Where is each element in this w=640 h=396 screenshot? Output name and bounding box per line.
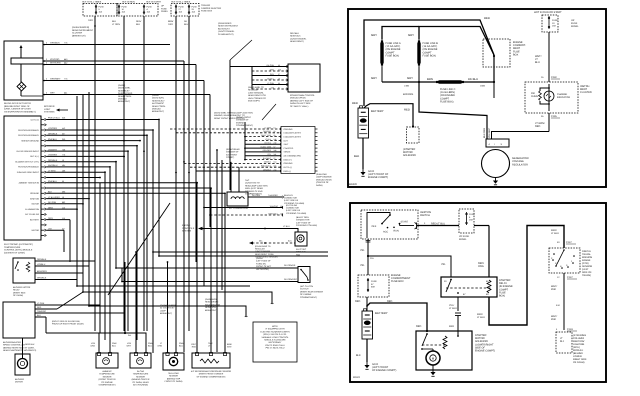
battery B1 (starting): [362, 311, 373, 339]
blower motor box: [15, 354, 30, 375]
junction S244: [124, 332, 126, 334]
junction: [88, 198, 90, 200]
svg-text:BLK/ORG: BLK/ORG: [483, 128, 486, 138]
svg-text:OFF: OFF: [372, 225, 377, 228]
wire RED/LT BLU switch to fuse: [418, 225, 459, 227]
svg-text:COOLING: COOLING: [296, 251, 306, 254]
svg-text:A/C CLU85 SW: A/C CLU85 SW: [25, 213, 39, 216]
wire compressor out: [248, 196, 282, 198]
svg-text:NEAR BLKLY: NEAR BLKLY: [152, 99, 165, 102]
wire bus x204: [203, 81, 205, 287]
svg-text:FUSE BOX): FUSE BOX): [440, 100, 454, 103]
wire controller row LT GRN: [35, 304, 100, 306]
svg-text:DK BLU: DK BLU: [267, 77, 274, 80]
blend door actuator box: [4, 41, 43, 100]
svg-text:FUSE: FUSE: [192, 6, 198, 9]
svg-text:341: 341: [274, 153, 277, 156]
wire fuse box to bus: [493, 56, 495, 82]
svg-text:BLK: BLK: [37, 314, 41, 317]
svg-text:COOLANT/LIGHTS: COOLANT/LIGHTS: [284, 132, 302, 135]
wire PCM VIO: [252, 88, 288, 90]
svg-text:IN-CAR: IN-CAR: [137, 370, 145, 373]
svg-text:A/C DEMAND (PB): A/C DEMAND (PB): [284, 155, 301, 158]
svg-text:BREAKOUT): BREAKOUT): [205, 309, 217, 312]
generator regulator terminal box: [486, 139, 509, 147]
svg-text:33: 33: [278, 82, 280, 85]
junction: [216, 149, 218, 151]
wire bus x176: [175, 16, 177, 353]
svg-text:FUSE BOX): FUSE BOX): [423, 54, 437, 57]
svg-text:TEMPERATURE: TEMPERATURE: [99, 373, 115, 376]
svg-text:BLU: BLU: [112, 344, 116, 347]
wire BLK battery ground: [362, 138, 364, 169]
svg-text:VIO/ORG: VIO/ORG: [50, 58, 60, 61]
svg-text:LT BLU: LT BLU: [283, 225, 290, 228]
svg-text:205: 205: [280, 213, 283, 216]
svg-text:249: 249: [274, 142, 277, 145]
svg-text:GRY/BLK: GRY/BLK: [290, 32, 300, 35]
starter motor solenoid (dashed): [407, 127, 420, 143]
svg-text:BLOWER: BLOWER: [15, 378, 25, 381]
svg-text:VIO: VIO: [271, 86, 275, 89]
svg-text:MODULE (SCM): MODULE (SCM): [316, 178, 332, 181]
wire stack2 row 1: [210, 214, 283, 216]
wire EATC row 8: [47, 161, 117, 163]
svg-text:MODULE (PCM): MODULE (PCM): [290, 97, 306, 100]
svg-text:LT GRN: LT GRN: [267, 82, 274, 85]
svg-text:OF DASH): OF DASH): [573, 361, 585, 364]
svg-text:GROUND: GROUND: [284, 128, 293, 131]
wire RED battery feed to engine compt fuse box: [364, 20, 494, 106]
wire RED/LT BLU relay to DTR sensor: [489, 226, 564, 326]
wire stack1 row 6: [245, 151, 281, 153]
svg-text:YEL/WHT: YEL/WHT: [488, 127, 491, 138]
svg-text:OF ENGINE COMPT): OF ENGINE COMPT): [372, 369, 396, 372]
svg-text:PIN 23: PNK/LT BLU: PIN 23: PNK/LT BLU: [265, 344, 285, 347]
wire relay row ORG/BLK: [35, 279, 77, 281]
svg-text:HEADLAMP JUNCTION: HEADLAMP JUNCTION: [245, 184, 268, 187]
svg-text:15A: 15A: [552, 25, 556, 28]
svg-text:TRANS): TRANS): [582, 274, 591, 277]
wire bus x89: [88, 92, 90, 306]
junction: [183, 161, 185, 163]
svg-text:RED: RED: [404, 108, 410, 112]
wire DK GRN/ORG to a/c cutout 2: [122, 281, 298, 283]
dash fuse panel box 2: [117, 4, 158, 17]
svg-text:(E4OD 4W8L: (E4OD 4W8L: [118, 87, 131, 90]
svg-text:TAN/LT GRN: TAN/LT GRN: [261, 134, 272, 137]
wire DK GRN to a/c cutout: [116, 267, 298, 269]
wire bus x153: [152, 130, 154, 353]
svg-text:LAMP DIMMING: LAMP DIMMING: [316, 176, 332, 179]
svg-text:VARIABLE LOAD CONTROL: VARIABLE LOAD CONTROL: [262, 336, 290, 339]
wire EATC row 3: [47, 134, 148, 136]
wire stack1 row 1: [176, 132, 281, 134]
svg-text:PNK/LT BLU: PNK/LT BLU: [261, 165, 272, 168]
wire fuse57 to battery: [366, 297, 368, 311]
svg-text:BLK: BLK: [354, 154, 359, 158]
svg-text:ORG: ORG: [88, 19, 93, 22]
svg-text:AT COURTESY: AT COURTESY: [160, 307, 175, 310]
svg-text:(PRL) LYNX ON 3.4 LTR.: (PRL) LYNX ON 3.4 LTR.: [263, 333, 287, 336]
svg-text:YEL: YEL: [441, 263, 446, 266]
svg-text:SPEED CONTROLLER: SPEED CONTROLLER: [3, 344, 25, 347]
fuse link C: [434, 81, 466, 83]
charge indicator lamp: [544, 91, 554, 101]
svg-text:OF DASH, NEAR: OF DASH, NEAR: [132, 381, 149, 384]
svg-text:NEGATION: NEGATION: [205, 306, 216, 309]
wire sensor pin x110: [109, 346, 111, 353]
starter relay coil: [487, 280, 491, 293]
svg-text:FUSE BOX: FUSE BOX: [201, 10, 213, 13]
svg-text:ENGINE COMPT): ENGINE COMPT): [475, 350, 495, 353]
svg-text:BLKW-BLKY: BLKW-BLKY: [218, 27, 230, 30]
svg-text:FIRST BLU: FIRST BLU: [268, 213, 278, 216]
svg-text:JUNCTION/W/RL: JUNCTION/W/RL: [255, 250, 272, 253]
svg-text:29: 29: [278, 77, 280, 80]
svg-text:(BEHIND RIGHT SIDE OF DASH,: (BEHIND RIGHT SIDE OF DASH,: [3, 346, 35, 349]
wire relay row VIO/BLU: [35, 265, 89, 267]
svg-text:915: 915: [274, 165, 277, 168]
wire EATC row14: [47, 192, 226, 194]
svg-text:ENG CMPT): ENG CMPT): [248, 100, 260, 103]
svg-text:RED/: RED/: [136, 20, 142, 23]
svg-text:DK BLU: DK BLU: [468, 77, 478, 81]
EATC module box: [4, 116, 41, 240]
wire pressure feeder x197: [196, 183, 198, 346]
svg-text:NOTE:: NOTE:: [272, 325, 279, 328]
fuse 4: [175, 5, 177, 15]
svg-text:559: 559: [278, 68, 281, 71]
svg-text:(RIGHT-FRONT: (RIGHT-FRONT: [236, 116, 252, 119]
wire EATC row 12: [47, 182, 198, 184]
DTR sensor contacts: [553, 253, 555, 255]
svg-text:T-WD/ORG: T-WD/ORG: [268, 194, 278, 197]
svg-text:(DASH/JUMPER: (DASH/JUMPER: [160, 304, 176, 307]
svg-text:MODULE: MODULE: [118, 98, 128, 101]
svg-text:LT BLU: LT BLU: [477, 316, 485, 319]
wire EATC row 2: [47, 129, 154, 131]
charging system panel border: [348, 9, 606, 187]
wire start contact: [399, 224, 401, 226]
svg-text:SWITCH: SWITCH: [420, 214, 430, 217]
svg-text:AUTOMATIC: AUTOMATIC: [152, 102, 165, 105]
svg-text:TAN/ORG: TAN/ORG: [37, 310, 46, 313]
svg-text:ATC HOUSING): ATC HOUSING): [133, 384, 148, 387]
svg-text:THC: THC: [245, 179, 250, 182]
wire EATC row16: [47, 203, 84, 205]
svg-text:RL1: RL1: [560, 340, 565, 343]
svg-text:RED: RED: [37, 306, 42, 309]
svg-text:LAMP: LAMP: [160, 309, 166, 312]
wire BLK down: [45, 317, 47, 333]
svg-text:OF SAFETY WALL): OF SAFETY WALL): [290, 105, 309, 108]
cooling fan motor: [297, 235, 304, 242]
dash fuse panel box 1: [83, 4, 117, 17]
ignition switch L pin connector: [366, 241, 371, 243]
svg-text:FUSE) (RL: FUSE) (RL: [256, 262, 267, 265]
svg-text:RED: RED: [449, 325, 454, 328]
svg-text:(RIGHT SIDE: (RIGHT SIDE: [13, 291, 26, 294]
svg-text:PPL: PPL: [268, 153, 271, 156]
svg-text:(LEFT SIDE OF: (LEFT SIDE OF: [284, 199, 299, 202]
wire stub DK BLU: [493, 82, 495, 98]
svg-text:REGULAR: REGULAR: [248, 89, 259, 92]
svg-text:CAMPER ADAPTER: CAMPER ADAPTER: [201, 7, 222, 10]
wire bus x189: [188, 16, 190, 331]
ambient temperature sensor box: [96, 353, 118, 368]
svg-text:(RIGHT REAR CORNER: (RIGHT REAR CORNER: [300, 290, 324, 293]
svg-text:UNIV CORNER OF: UNIV CORNER OF: [248, 97, 267, 100]
junction S bus: [418, 81, 420, 83]
svg-text:149B: 149B: [404, 85, 410, 88]
svg-text:POSITION FEEDBACK: POSITION FEEDBACK: [18, 134, 40, 137]
wire stack1 row 2: [245, 136, 281, 138]
svg-text:REAR CORSL: REAR CORSL: [118, 95, 132, 98]
starter motor solenoid box: [416, 331, 472, 370]
engine compartment fuse box (dashed, start): [358, 275, 389, 297]
junction: [94, 156, 96, 158]
svg-text:(LEFT SIDE OF: (LEFT SIDE OF: [256, 260, 271, 263]
fuse 10 15A: [548, 16, 550, 29]
wire GRY fuse link A top bus: [382, 27, 419, 40]
svg-text:MODULE (VLCM) ARE: MODULE (VLCM) ARE: [264, 339, 286, 342]
svg-text:57: 57: [274, 145, 276, 148]
junction: [143, 135, 145, 137]
wire controller row TAN/ORG: [35, 312, 124, 314]
wire bus x184: [183, 61, 185, 352]
svg-text:NEAR RIGHT): NEAR RIGHT): [290, 40, 304, 43]
svg-text:HOT IN RUN OR START: HOT IN RUN OR START: [534, 11, 562, 14]
a/c clutch cutout box: [298, 267, 310, 283]
svg-text:ORG: ORG: [90, 344, 95, 347]
starter relay contacts: [450, 279, 452, 281]
fuse link A: [381, 39, 383, 67]
svg-text:LEFT/DOOR): LEFT/DOOR): [256, 268, 269, 271]
wire stack1 row 11: [196, 170, 281, 172]
svg-text:DK GRN: DK GRN: [252, 194, 260, 197]
svg-text:(BREAKOUT): (BREAKOUT): [72, 34, 86, 37]
junction: [123, 140, 125, 142]
svg-text:LT GRN: LT GRN: [112, 23, 120, 26]
wire controller row BLK: [35, 316, 46, 318]
svg-text:DASH, CENTER OF DASH: DASH, CENTER OF DASH: [4, 108, 31, 111]
fuse link B: [418, 39, 420, 67]
wire PCM DK BLU: [252, 79, 288, 81]
junction fan 1: [244, 136, 246, 138]
wire bus x222: [221, 160, 223, 290]
svg-text:RELAY: RELAY: [13, 289, 20, 292]
electric cooling fan box: [295, 232, 307, 246]
DTR selector arm: [556, 250, 564, 266]
leader diagonal 4: [262, 104, 276, 120]
svg-text:(DASH/JUMPER): (DASH/JUMPER): [72, 26, 89, 29]
svg-text:GRY: GRY: [50, 92, 55, 95]
svg-text:BLOWER MTR RLY CTRL: BLOWER MTR RLY CTRL: [15, 161, 39, 164]
svg-text:2: 2: [46, 78, 47, 81]
wire bridge riser x125: [124, 262, 126, 333]
svg-text:BLK/WHT: BLK/WHT: [263, 157, 272, 160]
svg-text:59: 59: [274, 130, 276, 133]
fuse 5: [188, 5, 190, 15]
svg-text:TAN/BLK: TAN/BLK: [264, 161, 272, 164]
svg-text:OF ENGINE: OF ENGINE: [300, 293, 312, 296]
ground generator case: [495, 178, 497, 181]
wire PCM feeder: [251, 67, 253, 90]
svg-text:2: 2: [46, 92, 47, 95]
svg-text:(LEFT SIDE OF: (LEFT SIDE OF: [296, 221, 311, 224]
svg-text:FUSE: FUSE: [99, 6, 105, 9]
svg-text:RED: RED: [355, 300, 360, 303]
svg-text:ORG/BLK: ORG/BLK: [263, 168, 272, 171]
svg-text:(BEHIND CENTER: (BEHIND CENTER: [132, 378, 150, 381]
wire EATC row15: [47, 198, 90, 200]
svg-text:CUTOUT: CUTOUT: [300, 288, 309, 291]
svg-text:DK: DK: [184, 20, 188, 23]
svg-text:(BEHIND RIGHT SIDE OF: (BEHIND RIGHT SIDE OF: [4, 105, 30, 108]
wire relay row BRN/ORG: [35, 272, 83, 274]
wire stack1 row 10: [190, 166, 281, 168]
svg-text:348: 348: [274, 149, 277, 152]
svg-text:ORG/WHT: ORG/WHT: [50, 78, 61, 81]
starting system panel border: [350, 203, 606, 382]
wire VIO/ORG blend door row: [43, 60, 184, 62]
svg-text:ENGINE: ENGINE: [236, 121, 245, 124]
svg-text:DK BLU: DK BLU: [265, 142, 272, 145]
wire PCM ORG: [252, 70, 288, 72]
wire fuse to relay vertical: [474, 225, 489, 227]
junction: [143, 150, 145, 152]
svg-text:BREAKOUT): BREAKOUT): [118, 100, 130, 103]
svg-text:(E4OD 4W8L TO: (E4OD 4W8L TO: [248, 86, 264, 89]
ground G100 (starting): [366, 362, 368, 365]
svg-text:BLEND DOOR ACTUATOR: BLEND DOOR ACTUATOR: [4, 102, 31, 105]
starter motor M: [426, 351, 440, 365]
svg-text:START: START: [401, 221, 409, 224]
svg-text:RED: RED: [416, 325, 421, 328]
fuse 5 15A: [466, 212, 468, 225]
wire ORG/WHT blend door row: [43, 80, 204, 82]
svg-text:C137: C137: [566, 241, 572, 244]
wire bus x137: [136, 146, 138, 340]
svg-text:SYSTEMS: SYSTEMS: [44, 111, 55, 114]
junction connector stack box: [281, 127, 315, 174]
wire bus x100: [99, 183, 101, 333]
wire GRY fuse link B to fuse box: [419, 27, 494, 56]
wire bus x167.5: [167, 262, 169, 353]
wire compressor feeder 2: [238, 167, 240, 192]
svg-text:244: 244: [128, 334, 131, 337]
wire to compressor region: [159, 255, 328, 257]
steering column ignition lighting module (dashed): [556, 332, 572, 353]
wire BLK battery ground 2: [366, 339, 368, 362]
svg-text:LT BLU: LT BLU: [449, 307, 457, 310]
svg-text:(JUNCTION/A/RL: (JUNCTION/A/RL: [218, 30, 235, 33]
svg-text:CLUSTER: CLUSTER: [72, 32, 83, 35]
wire EATC row 9: [47, 166, 111, 168]
svg-text:PNK: PNK: [551, 318, 556, 321]
svg-text:COOLANT/LIGHTS: COOLANT/LIGHTS: [284, 135, 302, 138]
svg-text:A/C REFRIGERANT PRESSURE SENSO: A/C REFRIGERANT PRESSURE SENSOR: [191, 370, 232, 373]
svg-text:FUSE: FUSE: [371, 280, 377, 283]
svg-text:(CENTER OF: (CENTER OF: [316, 181, 329, 184]
svg-text:SOLENOID: SOLENOID: [403, 154, 416, 157]
svg-text:FUSE BOX: FUSE BOX: [391, 280, 404, 283]
a/c compressor box: [227, 192, 248, 206]
svg-text:SUN LOAD: SUN LOAD: [168, 372, 179, 375]
svg-text:UP: UP: [161, 5, 165, 8]
svg-text:REGULATOR: REGULATOR: [512, 163, 528, 166]
svg-text:POWERTRAIN CONTROL: POWERTRAIN CONTROL: [290, 94, 316, 97]
battery B1 (charging): [358, 108, 369, 138]
junction: [135, 251, 137, 253]
wire horizontal y252: [153, 251, 328, 253]
svg-text:ORG/BLK: ORG/BLK: [37, 277, 47, 280]
svg-text:INTERIOR: INTERIOR: [44, 105, 55, 108]
wire relay row ORG/BLK: [35, 260, 95, 262]
svg-text:CONTROL (EATC) MODULE: CONTROL (EATC) MODULE: [4, 249, 33, 252]
svg-text:ORG: ORG: [270, 68, 275, 71]
wire YEL to fuse 57: [367, 256, 369, 275]
wire bus x116: [115, 162, 117, 268]
svg-text:HOT IN START: HOT IN START: [146, 1, 162, 4]
svg-text:BLK: BLK: [356, 354, 361, 357]
wire y306: [89, 306, 246, 316]
svg-text:(BLK/LXX: (BLK/LXX: [284, 194, 293, 197]
svg-text:FAN: FAN: [296, 253, 301, 256]
svg-text:DATA (-): DATA (-): [284, 170, 292, 173]
svg-text:(DRIVER/RES: (DRIVER/RES: [218, 22, 232, 25]
wire WHT/LT BLU fuse to cluster: [548, 32, 550, 82]
inline connector: [455, 312, 461, 314]
wire EATC row 4: [47, 140, 141, 142]
wire stack1 row 5: [245, 147, 281, 149]
fuse 3: [143, 5, 145, 15]
svg-text:BOX): BOX): [499, 295, 505, 298]
svg-text:CLUSTER: CLUSTER: [580, 91, 592, 94]
blower relay contacts: [17, 261, 19, 263]
wire bus x64: [63, 230, 65, 252]
svg-text:PANEL: PANEL: [459, 238, 467, 241]
PCM box: [288, 64, 320, 92]
wire diagonal 2: [57, 292, 83, 309]
wire stack1 row 4: [245, 143, 281, 145]
wire sensor pin x211: [210, 346, 212, 353]
svg-text:DK GRN/ORG: DK GRN/ORG: [284, 278, 297, 281]
ignition switch lever: [382, 215, 390, 224]
wire YEL/WHT generator to cluster: [492, 132, 550, 140]
svg-text:BRN/: BRN/: [168, 20, 174, 23]
wire y292: [83, 292, 272, 303]
svg-text:TEMPERATURE: TEMPERATURE: [133, 373, 149, 376]
junction: [94, 25, 96, 27]
svg-text:PIN 47: BLK/LT BLU: PIN 47: BLK/LT BLU: [266, 347, 285, 350]
svg-text:STEERING COLUMN): STEERING COLUMN): [286, 212, 306, 215]
svg-text:WHT: WHT: [227, 345, 232, 348]
svg-text:C133: C133: [567, 328, 573, 331]
svg-text:(DASH): (DASH): [118, 84, 125, 87]
sun load sensor box: [163, 353, 184, 370]
svg-text:ORG: ORG: [168, 23, 173, 26]
wire bus x144: [143, 16, 145, 331]
svg-text:ORG: ORG: [478, 265, 484, 268]
svg-text:(SUNLOAD: (SUNLOAD: [316, 173, 327, 176]
svg-text:TUSER (EVEL SENSOR): TUSER (EVEL SENSOR): [255, 255, 278, 258]
svg-text:ORG/RED: ORG/RED: [263, 149, 272, 152]
wire compressor feeder 1: [230, 162, 232, 192]
wire WHT/ORG blend door row: [43, 64, 196, 66]
svg-text:92: 92: [278, 86, 280, 89]
